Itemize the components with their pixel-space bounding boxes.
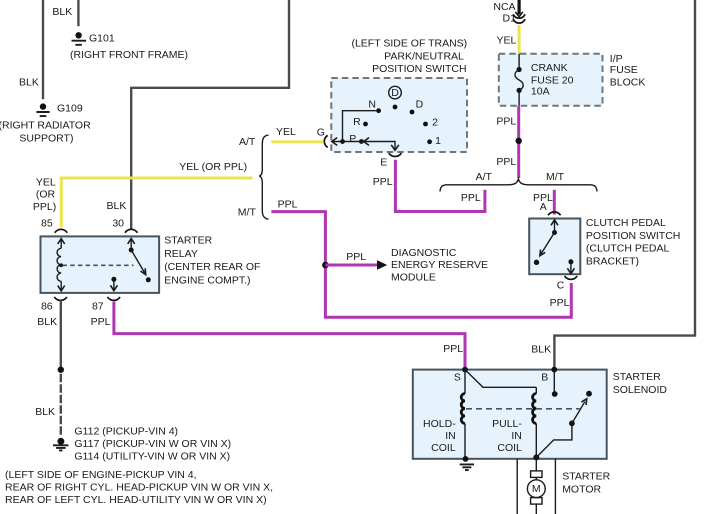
- splice node on PPL: [516, 138, 522, 144]
- node DERM junction: [322, 262, 329, 269]
- svg-text:STARTER: STARTER: [562, 470, 610, 482]
- svg-text:FUSE: FUSE: [610, 64, 638, 76]
- svg-text:S: S: [454, 371, 461, 383]
- clutch switch contacts: [534, 220, 575, 274]
- svg-text:PPL): PPL): [33, 201, 56, 213]
- ground G101: [70, 32, 188, 61]
- wire S to pull-in coil: [465, 370, 536, 388]
- svg-text:ENERGY RESERVE: ENERGY RESERVE: [391, 259, 488, 271]
- svg-text:POSITION SWITCH: POSITION SWITCH: [586, 230, 681, 242]
- wire BLK to G101: [77, 0, 79, 25]
- svg-text:D: D: [416, 98, 424, 110]
- svg-text:G114 (UTILITY-VIN W OR VIN X): G114 (UTILITY-VIN W OR VIN X): [74, 451, 230, 463]
- wire YEL into fuse block: [518, 25, 521, 54]
- fuse CRANK FUSE 20 10A: [515, 54, 574, 106]
- svg-text:PPL: PPL: [373, 176, 393, 188]
- wire YEL (OR PPL) to relay 85: [61, 178, 252, 227]
- pin 30 cup: [125, 229, 138, 232]
- node B: [551, 367, 557, 373]
- svg-text:NCA: NCA: [493, 1, 515, 13]
- relay pin 87 contact: [110, 277, 117, 291]
- svg-text:M/T: M/T: [546, 171, 565, 183]
- wire NCA black: [517, 0, 520, 15]
- solenoid plunger linkage: [536, 423, 572, 457]
- ground (solenoid): [460, 464, 474, 470]
- starter relay box: [41, 236, 160, 293]
- svg-text:(CENTER REAR OF: (CENTER REAR OF: [164, 261, 260, 273]
- svg-text:STARTER: STARTER: [164, 235, 212, 247]
- svg-text:30: 30: [112, 217, 124, 229]
- wire BLK from top right to relay pin 30: [131, 0, 289, 229]
- svg-text:COIL: COIL: [431, 442, 456, 454]
- svg-text:G101: G101: [89, 32, 115, 44]
- arrow at NCA wire end: [515, 12, 522, 17]
- arrowhead at G (pointing left): [332, 138, 337, 146]
- left brace A/T-M/T: [259, 135, 268, 219]
- svg-text:IN: IN: [445, 430, 456, 442]
- pin 86 cup: [54, 297, 67, 300]
- svg-text:N: N: [368, 98, 376, 110]
- starter motor: [527, 457, 545, 514]
- svg-text:10A: 10A: [531, 85, 550, 97]
- node S: [462, 367, 468, 373]
- svg-text:ENGINE COMPT.): ENGINE COMPT.): [164, 274, 250, 286]
- svg-text:BLOCK: BLOCK: [610, 77, 646, 89]
- svg-text:DIAGNOSTIC: DIAGNOSTIC: [391, 247, 457, 259]
- ground G109: [0, 102, 91, 144]
- svg-text:P: P: [349, 133, 356, 145]
- pin 87 cup: [108, 297, 121, 300]
- svg-text:BLK: BLK: [35, 406, 55, 418]
- pin A cup: [548, 212, 561, 215]
- junction node on 86 wire: [58, 367, 64, 373]
- arrowhead at E (pointing down): [391, 145, 399, 150]
- junction node in switch: [340, 139, 345, 144]
- svg-text:REAR OF RIGHT CYL. HEAD-PICKUP: REAR OF RIGHT CYL. HEAD-PICKUP VIN W OR …: [5, 481, 273, 493]
- svg-text:PPL: PPL: [496, 156, 516, 168]
- node hold-in to ground: [463, 456, 469, 462]
- contact P: [359, 139, 364, 144]
- svg-text:M: M: [532, 483, 541, 495]
- wire BLK to G109: [42, 0, 44, 98]
- clutch pedal position switch box: [529, 219, 580, 275]
- wiper wire G to E: [332, 142, 395, 150]
- svg-text:B: B: [541, 371, 548, 383]
- svg-text:SUPPORT): SUPPORT): [19, 133, 73, 145]
- svg-text:85: 85: [41, 218, 53, 230]
- svg-text:PULL-: PULL-: [492, 418, 522, 430]
- pull-in coil: [492, 387, 536, 457]
- svg-text:PPL: PPL: [346, 251, 366, 263]
- svg-text:IN: IN: [511, 430, 522, 442]
- svg-text:PPL: PPL: [91, 316, 111, 328]
- contact 1: [427, 139, 432, 144]
- arrow to DERM: [377, 260, 387, 270]
- brace A/T M/T (under fuse): [440, 179, 597, 192]
- svg-text:D1: D1: [503, 13, 517, 25]
- svg-text:86: 86: [41, 301, 53, 313]
- B fixed contact: [553, 370, 555, 394]
- wire junction to N contact: [343, 111, 378, 142]
- pin G cup: [324, 135, 327, 147]
- wire solenoid left to motor: [516, 459, 518, 514]
- svg-text:MOTOR: MOTOR: [562, 484, 601, 496]
- svg-text:RELAY: RELAY: [164, 248, 198, 260]
- wire PPL relay 87 to solenoid S: [114, 302, 465, 369]
- svg-text:(OR: (OR: [36, 189, 56, 201]
- svg-text:(LEFT SIDE OF ENGINE-PICKUP VI: (LEFT SIDE OF ENGINE-PICKUP VIN 4,: [5, 469, 197, 481]
- relay contact arm from pin 30: [128, 239, 151, 283]
- contact D: [410, 110, 415, 115]
- svg-text:YEL: YEL: [36, 177, 56, 189]
- svg-text:PPL: PPL: [443, 343, 463, 355]
- wire PPL M/T to DERM junction and clutch C: [271, 212, 571, 318]
- ground G112/G117/G114: [53, 426, 231, 463]
- wire BLK dashed to G112: [60, 375, 62, 434]
- pin C cup: [565, 276, 578, 279]
- svg-text:(RIGHT FRONT FRAME): (RIGHT FRONT FRAME): [70, 49, 188, 61]
- wire PPL M/T branch to clutch A: [553, 190, 556, 215]
- circled D indicator: [389, 86, 402, 99]
- svg-text:BLK: BLK: [531, 343, 551, 355]
- pin E cup: [389, 153, 402, 156]
- wire PPL to DERM: [325, 264, 377, 267]
- svg-text:PARK/NEUTRAL: PARK/NEUTRAL: [384, 51, 464, 63]
- svg-text:D: D: [391, 87, 399, 99]
- relay coil: [57, 239, 65, 291]
- svg-text:SOLENOID: SOLENOID: [613, 384, 668, 396]
- svg-text:G: G: [317, 126, 325, 138]
- svg-text:CRANK: CRANK: [531, 62, 568, 74]
- svg-text:M/T: M/T: [238, 207, 257, 219]
- svg-text:CLUTCH PEDAL: CLUTCH PEDAL: [586, 217, 666, 229]
- svg-text:BLK: BLK: [107, 200, 127, 212]
- contact 2: [423, 122, 428, 127]
- svg-text:PPL: PPL: [550, 297, 570, 309]
- svg-text:BLK: BLK: [19, 76, 39, 88]
- relay dashed link: [63, 264, 134, 266]
- svg-text:2: 2: [432, 117, 438, 129]
- svg-text:YEL (OR PPL): YEL (OR PPL): [179, 161, 247, 173]
- svg-text:PPL: PPL: [461, 192, 481, 204]
- svg-text:PPL: PPL: [496, 116, 516, 128]
- svg-text:STARTER: STARTER: [613, 371, 661, 383]
- wire BLK right side to solenoid B: [554, 0, 695, 368]
- svg-text:BRACKET): BRACKET): [586, 256, 639, 268]
- svg-text:C: C: [557, 280, 565, 292]
- wire PPL fuse output to brace: [517, 106, 520, 178]
- starter solenoid box: [413, 370, 607, 459]
- svg-text:REAR OF LEFT CYL. HEAD-UTILITY: REAR OF LEFT CYL. HEAD-UTILITY VIN W OR …: [5, 494, 267, 506]
- svg-text:BLK: BLK: [37, 316, 57, 328]
- svg-text:E: E: [380, 157, 387, 169]
- svg-text:HOLD-: HOLD-: [423, 418, 456, 430]
- svg-text:(LEFT SIDE OF TRANS): (LEFT SIDE OF TRANS): [351, 38, 467, 50]
- svg-text:A: A: [540, 201, 547, 213]
- wire BLK from relay 86: [60, 302, 62, 370]
- relay coil mid node: [59, 263, 63, 267]
- svg-text:A/T: A/T: [239, 136, 256, 148]
- contact N: [376, 108, 381, 113]
- park/neutral position switch box: [331, 78, 467, 152]
- svg-text:POSITION SWITCH: POSITION SWITCH: [372, 63, 467, 75]
- contact R: [363, 122, 368, 127]
- upper fixed contact: [586, 391, 592, 397]
- svg-text:PPL: PPL: [278, 199, 298, 211]
- wire solenoid right to motor: [554, 459, 556, 514]
- wire PPL A/T branch to E: [395, 160, 485, 212]
- pin 85 cup: [55, 229, 68, 232]
- svg-text:R: R: [353, 116, 361, 128]
- svg-text:G109: G109: [57, 102, 83, 114]
- svg-text:YEL: YEL: [276, 126, 296, 138]
- svg-text:A/T: A/T: [476, 171, 493, 183]
- svg-text:G117 (PICKUP-VIN W OR VIN X): G117 (PICKUP-VIN W OR VIN X): [74, 438, 231, 450]
- svg-text:MODULE: MODULE: [391, 272, 436, 284]
- svg-text:COIL: COIL: [497, 442, 522, 454]
- hold-in coil: [423, 370, 465, 459]
- svg-text:(RIGHT RADIATOR: (RIGHT RADIATOR: [0, 120, 91, 132]
- svg-text:G112 (PICKUP-VIN 4): G112 (PICKUP-VIN 4): [74, 426, 178, 438]
- I/P fuse block (dashed box): [499, 54, 603, 106]
- solenoid dashed link: [466, 408, 580, 410]
- svg-text:87: 87: [92, 301, 104, 313]
- wire YEL A/T to G: [271, 140, 323, 143]
- solenoid moving contact: [569, 420, 575, 426]
- node pull-in bottom: [533, 454, 539, 460]
- connector D1 (in-line, two cups): [513, 14, 525, 18]
- svg-text:YEL: YEL: [497, 34, 517, 46]
- contact dot under circled D: [393, 105, 398, 110]
- arrowhead mid wiper (pointing left): [364, 138, 369, 146]
- svg-text:(CLUTCH PEDAL: (CLUTCH PEDAL: [586, 243, 670, 255]
- svg-text:1: 1: [435, 135, 441, 147]
- svg-text:BLK: BLK: [52, 6, 72, 18]
